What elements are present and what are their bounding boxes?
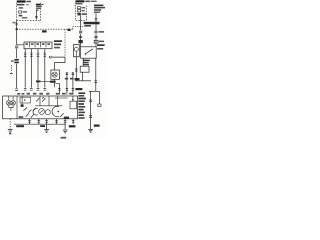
fuse block 2 text rows — [36, 6, 42, 11]
ground G2 under mid bus — [44, 130, 49, 133]
gauge circle 1 — [39, 109, 45, 115]
switch right leg down — [95, 58, 97, 91]
switch pivot dot — [85, 53, 86, 54]
wire labels mid-right — [65, 78, 74, 80]
wire right branch B from legend — [95, 13, 97, 30]
right text legend block — [78, 92, 85, 118]
ticks on switch right leg — [95, 81, 98, 83]
stub wires below cluster — [30, 119, 74, 130]
node at left line junction — [16, 28, 18, 30]
connector on right leg upper — [89, 100, 92, 102]
ground G1 — [8, 130, 13, 133]
switch label right — [97, 48, 103, 50]
fuse block 2 title bar (top-middle) — [36, 4, 44, 6]
dashed tail below splice — [10, 65, 12, 73]
wire label bar on branch B — [84, 22, 100, 25]
drop4 lower ticks — [44, 89, 47, 91]
junction block text row 2 — [76, 3, 83, 4]
left trunk lower segment — [16, 64, 18, 88]
switch blades cluster left — [24, 107, 37, 117]
connector C4 double bars on branch B — [94, 31, 97, 33]
ground G1 stud — [9, 133, 11, 134]
right leg down from y91.3 — [90, 91, 92, 129]
ignition switch sub-box in cluster — [20, 97, 31, 103]
horizontal wire y91.3 — [89, 90, 99, 92]
drop3 connector dashes — [37, 53, 39, 57]
fuse F1 symbol — [19, 11, 27, 13]
wire label blob near elbow — [68, 29, 71, 31]
connector C2 ticks on branch B — [95, 19, 98, 20]
branch B component labels — [97, 31, 105, 46]
strip label text right — [54, 40, 62, 48]
switch blade inside — [86, 49, 93, 54]
component on far right leg — [98, 104, 101, 107]
mid vertical wires into cluster — [59, 72, 73, 95]
connector C6 ticks on left trunk — [15, 46, 18, 48]
stub connector ticks — [28, 121, 74, 123]
courtesy lamp box — [51, 70, 60, 79]
speedo hub dot — [57, 111, 59, 113]
wire from CB1 down (right branch A) — [80, 15, 82, 30]
relay K1 outline — [73, 45, 79, 57]
connector ticks on relay lower wire — [75, 69, 78, 71]
dashed branch wire down the middle — [64, 29, 66, 57]
right legend text block — [94, 5, 105, 13]
drop wire 1 from strip — [24, 49, 26, 88]
drop wire 4 from strip — [44, 49, 46, 88]
bus label mid — [40, 125, 45, 127]
fuse F2 symbol — [77, 7, 85, 9]
label bar under lamp box — [36, 81, 41, 83]
lamp L0 box on branch B — [94, 40, 98, 43]
wire label bar mid-left — [42, 30, 47, 32]
connector ticks upper left trunk — [15, 23, 17, 25]
ground G2b label — [61, 137, 67, 139]
left trunk wire — [16, 21, 18, 45]
connector ticks on second feed — [72, 73, 74, 75]
wire elbow to lamp box — [55, 57, 65, 70]
blade in cell 2 — [42, 97, 45, 102]
cluster cell dividers — [40, 96, 58, 106]
cluster internal shelf line — [35, 105, 62, 107]
fuse F3 symbol — [77, 10, 84, 12]
feed wire label bar — [84, 25, 91, 27]
splice S3 bars — [11, 59, 19, 63]
ground G3 — [88, 129, 93, 132]
drop2 connector dashes — [30, 53, 32, 57]
blade in cell 1 — [36, 98, 39, 102]
blade right in cluster — [60, 113, 64, 117]
sub box right in cluster — [70, 101, 77, 109]
drop wire 3 from strip — [37, 49, 39, 88]
drop wire 2 from strip — [30, 49, 32, 88]
left trunk continue — [16, 49, 18, 59]
cluster label blob bottom — [64, 117, 69, 119]
labels above cluster left — [17, 93, 24, 95]
gauge arc left — [33, 108, 38, 115]
diode D1 box on branch A — [79, 40, 83, 43]
dome lamp ground drop (dashed) — [9, 119, 11, 129]
wire link at y81 — [41, 80, 50, 82]
label bar 2 at y81 — [50, 81, 56, 83]
drop2 lower ticks — [30, 89, 33, 91]
resistor blob — [21, 104, 24, 107]
switch lower label text rows — [83, 60, 90, 66]
drop4 connector dashes — [44, 53, 46, 57]
wire below courtesy lamp — [54, 79, 56, 87]
relay internal pin — [75, 51, 77, 57]
dashed feed wire upper right — [73, 27, 84, 30]
cluster internal divider — [16, 96, 18, 119]
connector ticks mid wires — [58, 89, 74, 91]
label bar at y88 right — [75, 88, 82, 90]
splice S2 bar on branch B — [94, 36, 97, 37]
horizontal bus y80.8 — [75, 80, 91, 82]
relay lower wire — [75, 57, 77, 81]
arrowhead into sub box — [72, 99, 74, 101]
arrow wire into sub box — [72, 96, 74, 101]
strip cell dividers — [30, 42, 47, 47]
cluster internal shelf left — [55, 97, 68, 99]
headlamp switch box — [81, 47, 97, 58]
label bar left of bus — [75, 78, 80, 80]
fuse block label text row 2 — [17, 4, 29, 6]
sub-box contact dot — [24, 99, 26, 101]
connector ticks on relay feed — [66, 73, 68, 75]
drop1 connector dashes — [24, 53, 26, 57]
circuit breaker CB1 — [77, 13, 86, 16]
speedometer arc — [52, 106, 59, 116]
connector C1 ticks on that wire — [35, 16, 38, 17]
wire branch A to switch — [80, 34, 82, 47]
instrument fuse strip box — [24, 42, 52, 49]
tail end bar — [10, 73, 13, 75]
cluster label small — [19, 116, 24, 118]
lamp joint wire — [9, 105, 13, 111]
gauge circle 1 needle — [40, 110, 43, 113]
resistor stub in cluster — [21, 96, 23, 104]
dome lamp 2 — [11, 96, 16, 105]
ground G2b under right bus leg — [63, 130, 68, 133]
relay coil circle — [74, 47, 78, 51]
drop3 lower ticks — [37, 89, 40, 91]
connector C3 double bars on branch A — [79, 31, 82, 33]
dome lamp 1 — [7, 96, 12, 105]
connector on right leg — [89, 116, 92, 118]
fuse F1 rating text — [19, 7, 28, 18]
splice S1 bar on branch A — [79, 36, 82, 37]
wire from switch into sub box — [82, 58, 84, 66]
drop1 lower ticks — [24, 89, 27, 91]
wire from fuse block 2 down — [35, 11, 37, 20]
jog from lamp label to wire — [56, 82, 60, 84]
fuse block dashed outline — [17, 3, 41, 21]
strip cell pin labels — [25, 43, 50, 45]
bus label right — [69, 125, 76, 127]
connector C7 ticks bottom of left trunk — [15, 89, 18, 91]
wire from sub box to bus — [82, 72, 84, 81]
junction block dashed outline — [76, 2, 87, 20]
instrument cluster box — [3, 96, 78, 119]
junction block title bar (top-right) — [76, 0, 97, 2]
ground bus wire — [14, 123, 66, 125]
wire color labels above cluster — [27, 93, 73, 95]
far right short leg — [98, 91, 100, 104]
gauge circle 2 — [45, 110, 50, 115]
connector C5 half at left of horizontal — [50, 56, 65, 59]
sub box below switch — [80, 66, 89, 72]
bus label left — [16, 125, 24, 127]
courtesy lamp symbol — [52, 72, 57, 77]
strip entry jog from left line — [17, 44, 24, 46]
ground G3 label — [94, 125, 100, 127]
fuse block title bar (top-left) — [17, 0, 31, 2]
long dashed wire across middle — [17, 28, 73, 30]
wire branch B to switch — [95, 34, 97, 47]
label left of trunk — [12, 22, 15, 24]
